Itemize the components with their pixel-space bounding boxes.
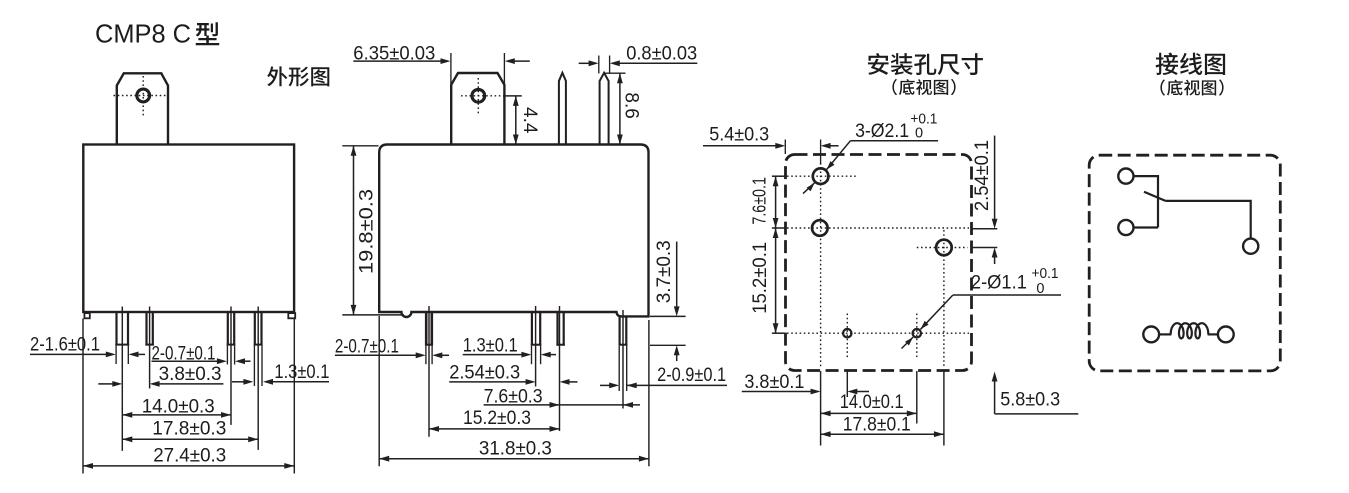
svg-text:5.4±0.3: 5.4±0.3: [709, 124, 769, 145]
dim 31.8 line: [379, 458, 649, 460]
dim 19.8±0.3 bottom tick: [342, 314, 404, 316]
dim 14.0 line: [122, 414, 231, 416]
svg-text:15.2±0.3: 15.2±0.3: [463, 408, 531, 429]
dim 3.7±0.3 lower tick: [650, 344, 686, 346]
dim 2-0.7 line left V2: [335, 354, 417, 356]
pin D right edge: [260, 312, 262, 346]
dim 0.8 line right: [619, 62, 697, 64]
coil inductor scribble: [1171, 323, 1209, 338]
pin B (0.7mm) left edge: [145, 312, 147, 346]
V2 pin1 centerline: [428, 306, 430, 437]
V2 pin3 right edge: [563, 312, 565, 346]
coil wire right: [1208, 333, 1218, 335]
dim 4.4 line: [515, 96, 517, 145]
V2 coil pin 2 (top blade): [600, 73, 609, 144]
relay V1 tab hole: [137, 89, 150, 102]
pin A right edge: [127, 312, 129, 346]
tab right edge extension: [503, 53, 505, 84]
pin2 edge extension right: [609, 56, 611, 74]
V2 pin1 left edge: [425, 312, 428, 346]
V2 pin2 left edge: [531, 312, 533, 346]
V2 pin3 centerline: [559, 306, 561, 431]
V3 col centerline S1: [846, 314, 848, 359]
svg-text:2-Ø1.1: 2-Ø1.1: [971, 273, 1027, 294]
wire NC to bracket: [1134, 176, 1159, 227]
svg-text:1.3±0.1: 1.3±0.1: [463, 336, 518, 357]
svg-text:17.8±0.3: 17.8±0.3: [152, 419, 226, 440]
coil terminal right: [1218, 327, 1234, 343]
V3 box-left top extension: [784, 140, 786, 155]
dim 3.8 line right: [159, 383, 224, 385]
pin C bottom tick: [227, 344, 236, 346]
V2 pin1 tick: [425, 344, 433, 346]
dim 5.4 line left: [703, 145, 776, 147]
V2 body right extension: [648, 320, 650, 466]
svg-text:8.6: 8.6: [621, 92, 642, 118]
V2 tab hole centerline vertical: [477, 78, 479, 115]
svg-text:3.8±0.1: 3.8±0.1: [744, 372, 804, 393]
mounting hole H2: [812, 220, 828, 236]
dim 2-1.6 line right: [138, 353, 145, 355]
dim 7.6 line: [484, 404, 640, 406]
dim 2.54 line left: [449, 381, 526, 383]
svg-text:19.8±0.3: 19.8±0.3: [357, 189, 378, 274]
V3 col centerline S2: [916, 314, 918, 358]
V3 row centerline y228: [787, 227, 969, 229]
svg-text:27.4±0.3: 27.4±0.3: [153, 446, 226, 467]
V2 pin2 centerline: [535, 306, 537, 387]
contact NC terminal circle: [1118, 169, 1133, 184]
V2 pin4 right edge: [625, 316, 627, 345]
dim 3.8±0.1 line right: [857, 391, 869, 393]
pin A bottom tick: [115, 344, 129, 346]
dim 5.8±0.3 horizontal: [995, 413, 1079, 415]
svg-text:31.8±0.3: 31.8±0.3: [479, 439, 552, 460]
dim 6.35 line left: [353, 60, 441, 62]
V2 pin1 edge ext left: [425, 346, 427, 365]
V3 ext hole1 col bottom: [820, 371, 822, 446]
relay V1 QC tab terminal: [117, 73, 168, 144]
svg-text:17.8±0.1: 17.8±0.1: [843, 414, 911, 435]
V4 dashed box: [1089, 155, 1280, 371]
tab left edge extension: [450, 53, 452, 84]
pin B centerline: [149, 307, 151, 389]
contact NO terminal circle: [1118, 220, 1133, 235]
title wiring diagram (接线图): [1156, 53, 1179, 75]
pin C edge extension left: [226, 346, 228, 365]
dim 2-0.7 line right V2: [442, 354, 449, 356]
pin B right edge: [152, 312, 154, 346]
dim 2.54±0.1 line lower: [994, 257, 996, 264]
V2 tab hole centerline horizontal: [461, 95, 501, 97]
V2 pin4 centerline: [622, 310, 624, 409]
pin D edge extension right: [261, 346, 263, 386]
V3 tick row333 left: [772, 332, 785, 334]
dim 8.6 line: [619, 73, 621, 144]
dim 3.7±0.3 upper tick: [650, 315, 686, 317]
pin A edge extension right: [127, 346, 129, 364]
svg-text:4.4: 4.4: [519, 107, 540, 134]
subtitle bottom view V4: [1160, 79, 1165, 95]
V3 ext S1 col bottom: [846, 371, 848, 397]
V2 pin1 edge ext right: [431, 346, 433, 365]
svg-text:3.8±0.3: 3.8±0.3: [159, 364, 222, 385]
coil terminal left: [1143, 327, 1159, 343]
dim 3.7 line upper: [676, 242, 678, 308]
dim 2-0.7 line right: [244, 360, 250, 362]
svg-text:2-0.9±0.1: 2-0.9±0.1: [657, 365, 726, 386]
V2 pin4 edge ext right: [626, 346, 628, 391]
V1 body right extension line: [293, 319, 295, 474]
dim 1.3 line right V1: [272, 381, 329, 383]
dim 2-0.9 line left: [600, 384, 610, 386]
pin B bottom tick: [145, 344, 154, 346]
dim 19.8 line: [353, 146, 355, 315]
V3 dashed outline box: [786, 155, 972, 371]
relay V1 right foot: [288, 313, 295, 318]
V3 col centerline hole1: [820, 163, 822, 368]
V2 pin1 right edge: [430, 312, 433, 346]
pin D edge extension left: [253, 346, 255, 386]
small hole S2: [913, 329, 921, 337]
pin A edge extension left: [115, 346, 117, 364]
V3 row centerline y247: [917, 247, 968, 249]
V2 pin3 tick: [556, 344, 564, 346]
V1 body left extension line: [82, 319, 84, 474]
relay V1 left foot: [84, 313, 89, 318]
svg-text:0: 0: [915, 126, 923, 142]
V2 body left extension: [378, 316, 380, 466]
pin D (1.6mm) left edge: [254, 312, 256, 346]
dim 2.54 line right: [569, 381, 578, 383]
wire common: [1166, 201, 1251, 238]
V3 tick row176 left: [772, 175, 785, 177]
pin C edge extension right: [234, 346, 236, 365]
dim 3.7 line lower: [676, 355, 678, 362]
switch blade: [1144, 192, 1166, 201]
V3 ext hole3 col bottom: [943, 371, 945, 446]
dim 5.8±0.3 vertical: [994, 381, 996, 414]
relay V2 tab hole: [472, 89, 485, 102]
pin D bottom tick: [254, 344, 263, 346]
svg-text:1.3±0.1: 1.3±0.1: [274, 362, 329, 383]
subtitle bottom view V3: [892, 79, 897, 95]
V3 hole1 col top extension: [820, 140, 822, 165]
pin C centerline: [230, 307, 232, 425]
coil wire left: [1159, 333, 1171, 335]
small hole S1: [843, 329, 851, 337]
pin C (0.7mm) left edge: [227, 312, 229, 346]
dim 14.0±0.1 line: [821, 412, 917, 414]
dim 1.3 line right V2: [550, 354, 556, 356]
dim 3.8 line left: [98, 383, 113, 385]
svg-text:0: 0: [1036, 281, 1044, 297]
svg-text:3.7±0.3: 3.7±0.3: [654, 240, 675, 303]
svg-text:7.6±0.1: 7.6±0.1: [750, 177, 770, 225]
svg-text:+0.1: +0.1: [1032, 266, 1059, 282]
dim 17.8 line: [122, 438, 258, 440]
dim 15.2 line: [429, 428, 560, 430]
pin A centerline: [121, 307, 123, 451]
mounting hole H1: [813, 168, 829, 184]
V2 pin4 left edge: [618, 316, 620, 345]
V3 ext S2 col bottom: [916, 371, 918, 424]
relay V2 tab terminal: [451, 73, 504, 144]
V2 pin2 tick: [531, 344, 542, 346]
dim 5.4 line right: [830, 145, 839, 147]
pin A (1.6mm) left edge: [115, 312, 117, 346]
relay V1 tab hole centerline horizontal: [114, 95, 166, 97]
V2 coil pin 1 (top blade): [559, 73, 566, 144]
svg-text:2.54±0.1: 2.54±0.1: [972, 140, 993, 211]
dim 4.4 tick: [503, 95, 522, 97]
dim 1.3 line left V2: [463, 354, 522, 356]
dim 7.6±0.1 line: [775, 176, 777, 228]
relay V2 body outline: [379, 145, 648, 318]
title mounting-hole dims (安装孔尺寸): [868, 53, 889, 75]
svg-text:5.8±0.3: 5.8±0.3: [1000, 389, 1060, 410]
dim 2-0.9 line right: [627, 384, 727, 386]
V2 pin4 edge ext left: [618, 346, 620, 391]
dim 19.8±0.3 top tick: [342, 145, 378, 147]
dim 1.3 line left V1: [232, 381, 244, 383]
relay V1 body: [83, 145, 294, 313]
svg-text:15.2±0.1: 15.2±0.1: [750, 242, 771, 314]
svg-text:2.54±0.3: 2.54±0.3: [449, 362, 520, 383]
svg-text:2-1.6±0.1: 2-1.6±0.1: [30, 335, 100, 356]
dim 3.8±0.1 line left: [742, 391, 812, 393]
V2 pin2 edge ext left: [531, 346, 533, 365]
relay V1 tab hole centerline vertical: [142, 76, 144, 116]
svg-text:0.8±0.03: 0.8±0.03: [626, 43, 697, 64]
label 2-1.1 leader: [953, 294, 1061, 296]
V2 pin4 tick: [619, 344, 628, 346]
V3 tick row247 right: [972, 247, 998, 249]
mounting hole H3: [936, 240, 952, 256]
svg-text:CMP8 C: CMP8 C: [95, 19, 191, 49]
pin2 edge extension left: [598, 56, 600, 74]
pin D centerline: [257, 307, 259, 450]
label outline-drawing (外形图): [267, 66, 287, 86]
dim 27.4 line: [83, 465, 294, 467]
V3 col centerline hole3: [943, 230, 945, 368]
V3 row centerline y333: [787, 332, 969, 334]
V2 pin2 right edge: [539, 312, 541, 346]
dim 0.8 line left: [579, 62, 590, 64]
wire NO stub: [1134, 226, 1159, 228]
svg-text:3-Ø2.1: 3-Ø2.1: [855, 121, 909, 142]
dim 2.54±0.1 line upper: [994, 136, 996, 219]
V3 tick row228 right: [972, 228, 998, 230]
dim 17.8±0.1 line: [821, 433, 944, 435]
V3 tick row228 left: [772, 227, 785, 229]
pin C right edge: [233, 312, 235, 346]
dim 2-0.7 line left: [152, 360, 218, 362]
V2 pin3 left edge: [556, 312, 558, 346]
V3 row centerline y176: [787, 175, 856, 177]
dim 6.35 line right: [514, 60, 530, 62]
dim 8.6 tick: [604, 72, 626, 74]
svg-text:14.0±0.1: 14.0±0.1: [840, 392, 904, 413]
dim 2-1.6 line left: [30, 353, 107, 355]
dim 15.2±0.1 line: [775, 228, 777, 333]
svg-text:2-0.7±0.1: 2-0.7±0.1: [335, 337, 399, 358]
contact COM terminal circle: [1243, 239, 1258, 254]
V2 pin2 edge ext right: [540, 346, 542, 365]
label 3-2.1 leader: [851, 140, 939, 142]
